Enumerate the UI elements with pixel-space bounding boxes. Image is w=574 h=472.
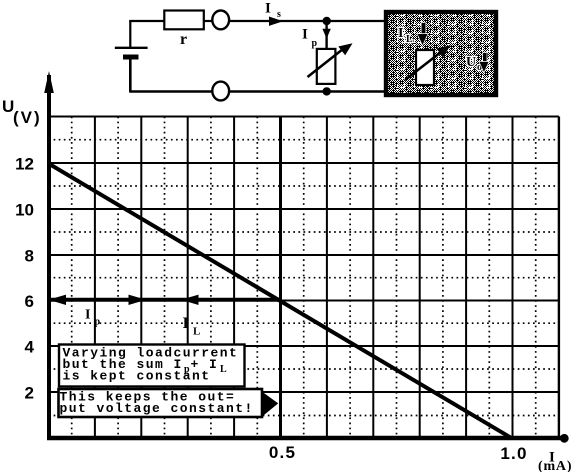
svg-text:p: p xyxy=(312,38,318,49)
x-axis I xyxy=(47,436,561,440)
svg-text:I: I xyxy=(85,308,90,323)
arrow of load potentiometer xyxy=(405,51,443,81)
terminal (bottom) xyxy=(212,82,229,101)
svg-text:I: I xyxy=(302,26,308,42)
potentiometer P1 xyxy=(317,49,336,84)
wire top: battery to resistor xyxy=(129,20,165,22)
callout box 2 xyxy=(59,389,263,417)
svg-text:I: I xyxy=(398,26,403,41)
svg-text:U: U xyxy=(466,55,476,70)
grid dotted vertical lines xyxy=(72,117,536,437)
arrow down U_o xyxy=(483,53,487,63)
wire bottom: terminal to load box xyxy=(229,90,386,92)
svg-text:L: L xyxy=(193,326,200,338)
svg-text:10: 10 xyxy=(15,201,34,220)
svg-text:p: p xyxy=(95,317,101,328)
callout box 1 xyxy=(59,345,245,387)
wire I_p branch xyxy=(325,21,327,49)
svg-text:6: 6 xyxy=(25,292,34,311)
arrowhead right at 146 xyxy=(129,295,147,305)
arrow I_p down xyxy=(322,29,330,39)
svg-text:1.0: 1.0 xyxy=(500,444,527,463)
wire top: resistor to terminal xyxy=(203,20,213,22)
load line (diagonal) xyxy=(49,164,511,438)
potentiometer inside load box xyxy=(416,50,434,85)
svg-text:put voltage constant!: put voltage constant! xyxy=(60,401,254,416)
svg-text:2: 2 xyxy=(25,384,34,403)
wire top: terminal to load box xyxy=(229,20,386,22)
svg-text:L: L xyxy=(220,364,227,375)
grid solid horizontal lines xyxy=(49,117,559,393)
x-axis end dot xyxy=(560,434,569,443)
svg-text:4: 4 xyxy=(25,338,35,357)
grid dotted horizontal lines xyxy=(49,140,559,416)
grid solid vertical lines xyxy=(95,117,559,437)
node junction bottom xyxy=(323,87,331,95)
svg-text:0.5: 0.5 xyxy=(269,443,296,462)
svg-text:is kept constant: is kept constant xyxy=(63,369,211,384)
arrowhead left at 181 xyxy=(181,295,199,305)
arrowhead left at axis xyxy=(49,295,67,305)
arrow of potentiometer P1 xyxy=(308,49,344,77)
svg-text:(V): (V) xyxy=(13,108,42,127)
svg-text:L: L xyxy=(406,34,413,45)
wire bottom: battery to terminal xyxy=(129,90,213,92)
y-axis U xyxy=(47,75,51,438)
svg-text:I: I xyxy=(183,315,189,332)
arrow I_s on wire xyxy=(269,17,283,26)
battery E1 xyxy=(115,21,148,92)
svg-text:8: 8 xyxy=(25,247,34,266)
svg-text:s: s xyxy=(277,9,281,20)
box 2 pointer xyxy=(262,392,278,417)
svg-text:r: r xyxy=(180,31,187,48)
svg-text:12: 12 xyxy=(15,155,34,174)
svg-text:(mA): (mA) xyxy=(538,459,572,472)
resistor r xyxy=(164,11,204,30)
arrow down inside load box xyxy=(422,23,426,35)
arrow line at U=6 xyxy=(49,298,281,302)
node junction top xyxy=(323,17,331,25)
y-axis arrowhead xyxy=(44,71,54,93)
terminal (top) xyxy=(212,11,229,30)
load box (shaded) xyxy=(386,12,496,95)
svg-text:I: I xyxy=(265,1,271,17)
